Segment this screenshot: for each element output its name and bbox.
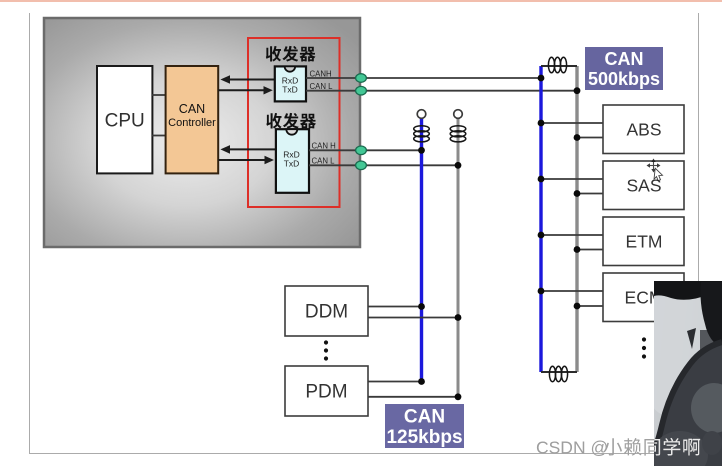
- CAN2 bus L line (gray): [457, 119, 460, 397]
- ECM node box: [603, 273, 684, 322]
- wire ABS CANL: [577, 137, 603, 139]
- slide frame left border: [29, 13, 31, 453]
- junction SAS CANH: [538, 176, 545, 183]
- SAS node box: [603, 161, 684, 210]
- wire SAS CANH: [541, 178, 603, 180]
- ECU module box (gray gradient): [44, 18, 360, 247]
- junction ABS CANH: [538, 120, 545, 127]
- transceiver T1: [275, 66, 306, 101]
- wire ECM CANL: [577, 305, 603, 307]
- CANL wire T1 to bus: [306, 90, 577, 92]
- top accent line: [0, 0, 722, 2]
- wire PDM CANL: [368, 396, 458, 398]
- bottom terminating coil: [549, 366, 567, 382]
- junction PDM CANL: [455, 393, 462, 400]
- CAN1 main bus H line (blue): [539, 66, 542, 372]
- junction DDM CANL: [455, 314, 462, 321]
- wire arrow controller to transceiver1: [218, 86, 273, 94]
- svg-text:CAN: CAN: [605, 49, 644, 69]
- svg-text:PDM: PDM: [305, 382, 347, 403]
- junction PDM CANH: [418, 378, 425, 385]
- junction T1 CANH / main bus: [538, 75, 545, 82]
- connector T2 CANL: [356, 161, 367, 170]
- PDM node box: [285, 366, 368, 416]
- watermark name (light over webcam): [604, 438, 700, 456]
- wire CPU-controller lower: [152, 135, 166, 137]
- watermark name (gray): [604, 438, 700, 456]
- svg-text:ETM: ETM: [626, 232, 663, 252]
- connector T2 CANH: [356, 146, 367, 155]
- svg-text:TxD: TxD: [282, 84, 298, 94]
- svg-text:125kbps: 125kbps: [386, 427, 462, 448]
- svg-text:CAN H: CAN H: [312, 142, 336, 151]
- svg-text:Controller: Controller: [168, 117, 216, 129]
- svg-text:CSDN @: CSDN @: [536, 438, 608, 458]
- CAN2 bus H line (blue): [420, 119, 423, 382]
- connector T1 CANH: [356, 74, 367, 83]
- webcam overlay: [632, 262, 722, 466]
- CANH wire T2 to sub-bus: [309, 149, 422, 151]
- ellipsis below ECM: [642, 337, 646, 358]
- wire ECM CANH: [541, 290, 603, 292]
- open terminal CAN2 L: [454, 110, 463, 119]
- wire arrow transceiver2 to controller: [220, 145, 276, 154]
- open terminal CAN2 H: [417, 110, 426, 119]
- svg-text:CAN: CAN: [179, 102, 205, 116]
- CPU box: [97, 66, 152, 173]
- svg-text:TxD: TxD: [284, 159, 300, 169]
- terminating coil CAN2 H: [414, 126, 430, 142]
- svg-text:DDM: DDM: [305, 302, 348, 323]
- CAN controller U1: [166, 66, 219, 173]
- junction T2 CANL / bus: [455, 162, 462, 169]
- junction T2 CANH / bus: [418, 147, 425, 154]
- transceiver T2: [276, 129, 309, 193]
- slide frame right border: [698, 13, 700, 453]
- CANH wire T1 to bus: [306, 77, 541, 79]
- junction ETM CANL: [574, 246, 581, 253]
- top terminating coil: [548, 57, 566, 73]
- junction ECM CANH: [538, 288, 545, 295]
- wire ABS CANH: [541, 122, 603, 124]
- svg-text:CPU: CPU: [105, 111, 145, 132]
- wire arrow transceiver1 to controller: [220, 75, 274, 84]
- junction DDM CANH: [418, 303, 425, 310]
- DDM node box: [285, 286, 368, 336]
- wire SAS CANL: [577, 193, 603, 195]
- junction SAS CANL: [574, 190, 581, 197]
- svg-text:SAS: SAS: [626, 176, 661, 196]
- svg-text:ABS: ABS: [626, 120, 661, 140]
- wire DDM CANL: [368, 317, 458, 319]
- connector T1 CANL: [356, 86, 367, 95]
- CAN 125kbps label: [385, 404, 464, 448]
- wire ETM CANH: [541, 234, 603, 236]
- junction ABS CANL: [574, 134, 581, 141]
- ETM node box: [603, 217, 684, 266]
- mouse move cursor: [647, 159, 663, 181]
- CAN 500kbps label: [585, 47, 663, 90]
- svg-text:500kbps: 500kbps: [588, 69, 660, 89]
- ellipsis between DDM and PDM: [324, 340, 328, 360]
- transceiver label 2 (收发器): [266, 113, 316, 129]
- bottom terminator wire: [541, 371, 577, 373]
- red highlight frame around transceivers: [248, 38, 340, 207]
- svg-text:CAN: CAN: [404, 407, 445, 428]
- slide frame bottom border: [29, 453, 698, 455]
- transceiver label 1 (收发器): [266, 46, 316, 62]
- junction ECM CANL: [574, 303, 581, 310]
- CAN1 main bus L line (gray): [575, 66, 578, 372]
- svg-text:CAN L: CAN L: [310, 82, 334, 91]
- wire PDM CANH: [368, 381, 422, 383]
- wire arrow controller to transceiver2: [218, 156, 274, 164]
- svg-text:CAN L: CAN L: [312, 157, 336, 166]
- svg-text:CANH: CANH: [310, 69, 332, 78]
- top terminator wire: [541, 65, 577, 67]
- wire DDM CANH: [368, 306, 422, 308]
- CANL wire T2 to sub-bus: [309, 164, 458, 166]
- ABS node box: [603, 105, 684, 154]
- wire ETM CANL: [577, 249, 603, 251]
- junction T1 CANL / main bus: [574, 87, 581, 94]
- wire CPU-controller upper: [152, 94, 166, 96]
- junction ETM CANH: [538, 232, 545, 239]
- terminating coil CAN2 L: [450, 126, 466, 142]
